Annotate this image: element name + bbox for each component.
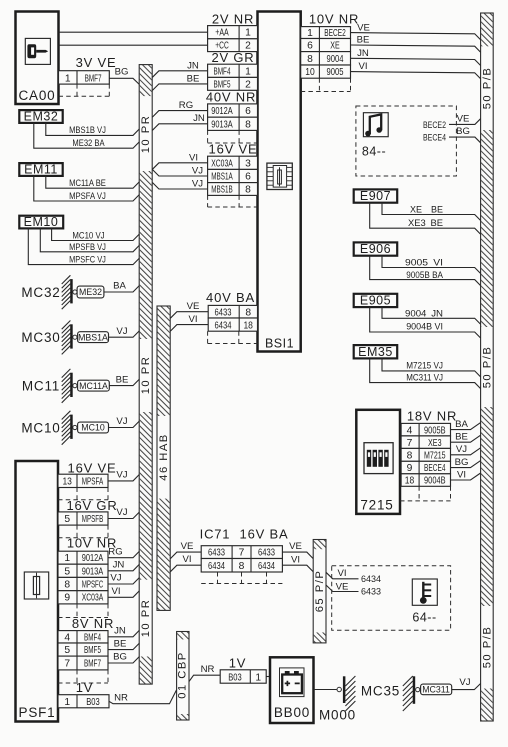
ground MC10 xyxy=(21,411,108,445)
interconnect bar 46 HAB xyxy=(157,306,170,610)
svg-text:9: 9 xyxy=(64,593,70,604)
svg-text:VI: VI xyxy=(337,568,346,579)
svg-text:VJ: VJ xyxy=(116,416,127,427)
svg-text:6: 6 xyxy=(245,106,251,117)
connector 40V BA (BSI1 pins 8,18) xyxy=(206,290,257,344)
svg-text:VI: VI xyxy=(182,554,191,565)
svg-text:5: 5 xyxy=(64,645,70,656)
svg-text:BMF4: BMF4 xyxy=(214,66,231,77)
relay box E907 xyxy=(354,189,398,203)
svg-text:46 HAB: 46 HAB xyxy=(158,433,170,481)
svg-text:XE3: XE3 xyxy=(428,438,442,449)
svg-text:IC71: IC71 xyxy=(200,526,231,541)
interconnect bar 65 P/P xyxy=(313,540,326,643)
svg-text:VJ: VJ xyxy=(116,507,127,518)
connector 2V NR (BSI1 pins 1,2) xyxy=(208,11,258,51)
svg-text:BECE2: BECE2 xyxy=(423,120,446,131)
switch unit 7215 xyxy=(356,410,400,514)
svg-text:MBS1A: MBS1A xyxy=(211,172,233,183)
relay box EM11 xyxy=(19,162,62,176)
svg-text:64--: 64-- xyxy=(412,611,436,625)
svg-text:VE: VE xyxy=(336,581,349,592)
wire BB00 to M000 xyxy=(314,689,337,691)
svg-text:M7215 VJ: M7215 VJ xyxy=(406,361,443,372)
svg-text:BE: BE xyxy=(114,638,127,649)
svg-text:MPSFA: MPSFA xyxy=(82,476,104,487)
svg-text:9012A: 9012A xyxy=(82,553,104,564)
svg-text:6434: 6434 xyxy=(215,320,232,331)
ground MC30 xyxy=(21,321,108,355)
svg-text:1: 1 xyxy=(307,28,313,39)
svg-text:VJ: VJ xyxy=(110,573,121,584)
svg-text:XE BE: XE BE xyxy=(410,204,443,215)
svg-text:13: 13 xyxy=(62,476,72,487)
svg-text:VI: VI xyxy=(111,586,120,597)
svg-text:BE: BE xyxy=(187,73,200,84)
svg-text:1V: 1V xyxy=(76,680,94,695)
svg-text:9013A: 9013A xyxy=(211,119,233,130)
wire +CC xyxy=(59,44,208,46)
svg-text:VJ: VJ xyxy=(459,677,470,688)
svg-text:9004 JN: 9004 JN xyxy=(405,308,443,319)
svg-text:MC10: MC10 xyxy=(21,421,60,436)
connector 16V GR (PSF1 pin 5) xyxy=(58,498,118,538)
svg-text:VI: VI xyxy=(189,152,198,163)
svg-text:E907: E907 xyxy=(360,189,391,203)
ground MC35 xyxy=(361,676,452,711)
svg-text:6: 6 xyxy=(245,172,251,183)
svg-text:VE: VE xyxy=(357,22,370,33)
ignition switch CA00 xyxy=(16,12,59,105)
connector 1V (PSF1 pin 1) xyxy=(58,680,109,708)
svg-text:6434: 6434 xyxy=(208,561,225,572)
svg-text:E906: E906 xyxy=(360,242,391,256)
svg-text:16V VE: 16V VE xyxy=(68,460,117,475)
svg-text:JN: JN xyxy=(193,113,205,124)
audio amplifier 84-- (dashed) xyxy=(356,106,457,176)
svg-text:MPSFC VJ: MPSFC VJ xyxy=(69,255,106,266)
svg-text:4: 4 xyxy=(407,425,413,436)
svg-text:VI: VI xyxy=(358,61,367,72)
svg-text:BECE2: BECE2 xyxy=(324,28,346,39)
svg-text:4: 4 xyxy=(64,632,70,643)
svg-text:BG: BG xyxy=(455,457,469,468)
connector 2V GR (BSI1 pins 1,2) xyxy=(208,50,258,90)
relay box EM35 xyxy=(354,345,398,359)
svg-text:MBS1B: MBS1B xyxy=(211,184,233,195)
svg-text:5: 5 xyxy=(64,514,70,525)
svg-text:MBS1B VJ: MBS1B VJ xyxy=(69,125,106,136)
svg-text:RG: RG xyxy=(108,546,122,557)
svg-text:1V: 1V xyxy=(229,655,247,670)
svg-text:MC35: MC35 xyxy=(361,683,400,698)
svg-text:9004: 9004 xyxy=(327,54,344,65)
svg-text:ME32: ME32 xyxy=(79,287,102,297)
svg-text:3: 3 xyxy=(245,158,251,169)
svg-text:MC10 VJ: MC10 VJ xyxy=(72,230,104,241)
svg-text:XE3 BE: XE3 BE xyxy=(408,218,443,229)
svg-text:BMF7: BMF7 xyxy=(84,659,101,670)
svg-text:BE: BE xyxy=(116,374,129,385)
svg-text:9004B: 9004B xyxy=(424,476,446,487)
interconnect bar 10 PR (left) xyxy=(139,65,152,685)
svg-text:MPSFB: MPSFB xyxy=(82,514,104,525)
svg-text:XC03A: XC03A xyxy=(82,593,104,604)
svg-text:MC11A BE: MC11A BE xyxy=(69,178,106,189)
svg-text:8: 8 xyxy=(245,119,251,130)
svg-text:1: 1 xyxy=(245,66,251,77)
svg-text:MC30: MC30 xyxy=(21,330,60,345)
svg-text:MC11: MC11 xyxy=(22,379,60,394)
svg-text:EM32: EM32 xyxy=(24,109,59,123)
svg-text:9004B VI: 9004B VI xyxy=(406,322,443,333)
svg-text:50 P/B: 50 P/B xyxy=(482,626,494,669)
svg-text:RG: RG xyxy=(179,100,193,111)
svg-text:JN: JN xyxy=(113,560,125,571)
svg-text:MC11A: MC11A xyxy=(79,381,108,391)
svg-text:6433: 6433 xyxy=(258,548,275,559)
svg-text:01 CBP: 01 CBP xyxy=(177,651,189,699)
svg-text:ME32 BA: ME32 BA xyxy=(72,138,105,149)
svg-text:16V GR: 16V GR xyxy=(66,498,117,513)
svg-text:B03: B03 xyxy=(86,697,100,708)
svg-text:1: 1 xyxy=(64,697,70,708)
svg-text:JN: JN xyxy=(187,60,199,71)
svg-text:MC311 VJ: MC311 VJ xyxy=(406,372,443,383)
svg-text:VE: VE xyxy=(457,113,470,124)
svg-text:1: 1 xyxy=(64,553,70,564)
connector 18V NR (7215 pins 4,7,8,9,18) xyxy=(400,408,457,501)
svg-text:7: 7 xyxy=(64,659,70,670)
svg-text:EM10: EM10 xyxy=(24,215,59,229)
svg-text:10: 10 xyxy=(305,67,315,78)
svg-text:6433: 6433 xyxy=(215,307,232,318)
svg-text:BG: BG xyxy=(115,67,129,78)
svg-text:8: 8 xyxy=(407,451,413,462)
svg-text:8: 8 xyxy=(245,307,251,318)
svg-text:18: 18 xyxy=(405,476,415,487)
svg-text:50 P/B: 50 P/B xyxy=(482,67,494,110)
svg-text:VJ: VJ xyxy=(456,444,467,455)
svg-text:VE: VE xyxy=(187,301,200,312)
svg-text:PSF1: PSF1 xyxy=(19,705,56,720)
interconnect bar 50 P/B (right) xyxy=(481,13,494,721)
wire +AA xyxy=(59,31,208,33)
svg-text:6433: 6433 xyxy=(361,587,381,598)
svg-text:VJ: VJ xyxy=(192,179,203,190)
svg-text:BMF4: BMF4 xyxy=(84,632,101,643)
svg-text:6433: 6433 xyxy=(208,548,225,559)
svg-text:8: 8 xyxy=(64,580,70,591)
svg-text:18V NR: 18V NR xyxy=(407,408,457,423)
svg-text:JN: JN xyxy=(357,48,369,59)
svg-text:BA: BA xyxy=(113,281,126,292)
ground M000 xyxy=(319,676,356,723)
svg-text:7: 7 xyxy=(407,438,413,449)
BSI unit BSI1 xyxy=(258,12,301,352)
svg-text:MC311: MC311 xyxy=(422,685,450,695)
svg-text:M7215: M7215 xyxy=(424,451,446,462)
interconnect bar 01 CBP xyxy=(177,632,190,721)
svg-text:VE: VE xyxy=(181,541,194,552)
svg-text:VJ: VJ xyxy=(116,470,127,481)
svg-text:6: 6 xyxy=(307,41,313,52)
svg-text:7215: 7215 xyxy=(360,498,393,513)
cigar lighter 64-- (dashed) xyxy=(332,566,451,631)
svg-text:6434: 6434 xyxy=(258,561,275,572)
svg-text:B03: B03 xyxy=(228,672,242,683)
svg-text:MBS1A: MBS1A xyxy=(78,332,108,342)
svg-text:VI: VI xyxy=(457,469,466,480)
svg-text:BB00: BB00 xyxy=(274,705,310,720)
svg-text:MPSFB VJ: MPSFB VJ xyxy=(69,242,106,253)
relay box EM32 xyxy=(19,109,62,123)
svg-text:8: 8 xyxy=(245,184,251,195)
connector 1V (battery B03) xyxy=(220,655,270,683)
svg-text:E905: E905 xyxy=(360,294,391,308)
svg-text:8: 8 xyxy=(307,54,313,65)
fuse box PSF1 xyxy=(16,461,59,722)
relay box E906 xyxy=(354,242,398,256)
connector IC71 16V BA xyxy=(200,526,289,583)
svg-text:2V NR: 2V NR xyxy=(212,11,254,26)
svg-text:65 P/P: 65 P/P xyxy=(314,570,326,613)
svg-text:BMF7: BMF7 xyxy=(85,73,102,84)
ground MC11 xyxy=(22,369,109,403)
svg-text:9005B: 9005B xyxy=(424,425,446,436)
svg-text:CA00: CA00 xyxy=(19,88,56,103)
connector 3V VE (CA00/BMF7) xyxy=(59,55,117,96)
svg-text:18: 18 xyxy=(243,320,253,331)
svg-text:9: 9 xyxy=(407,463,413,474)
connector 16V VE (PSF1 pin 13) xyxy=(58,460,116,499)
svg-text:8: 8 xyxy=(239,561,245,572)
svg-text:BE: BE xyxy=(357,35,370,46)
svg-text:1: 1 xyxy=(245,28,251,39)
svg-text:BECE4: BECE4 xyxy=(423,133,446,144)
svg-text:BSI1: BSI1 xyxy=(265,337,294,351)
svg-text:+AA: +AA xyxy=(215,28,229,39)
svg-text:BG: BG xyxy=(113,652,127,663)
svg-text:BECE4: BECE4 xyxy=(424,463,446,474)
connector 8V NR (PSF1 pins 4,5,7) xyxy=(58,616,114,683)
svg-text:EM11: EM11 xyxy=(24,162,58,176)
svg-text:EM35: EM35 xyxy=(358,345,393,359)
svg-text:16V BA: 16V BA xyxy=(240,526,289,541)
svg-text:50 P/B: 50 P/B xyxy=(482,346,494,389)
svg-text:2V GR: 2V GR xyxy=(211,50,254,65)
svg-text:VJ: VJ xyxy=(116,326,127,337)
svg-text:3V VE: 3V VE xyxy=(76,55,117,70)
connector 10V NR (PSF1 pins 1,5,8,9) xyxy=(58,536,117,618)
relay box E905 xyxy=(354,294,398,308)
svg-text:40V NR: 40V NR xyxy=(206,89,256,104)
svg-text:VI: VI xyxy=(188,314,197,325)
svg-text:6434: 6434 xyxy=(361,574,381,585)
relay box EM10 xyxy=(19,215,63,229)
svg-text:BE: BE xyxy=(455,432,468,443)
svg-text:VJ: VJ xyxy=(192,166,203,177)
svg-text:BA: BA xyxy=(455,419,468,430)
svg-text:1: 1 xyxy=(65,73,71,84)
svg-text:9005: 9005 xyxy=(327,67,344,78)
svg-text:10 PR: 10 PR xyxy=(140,356,152,395)
wire 6433 VE (to 64--) xyxy=(326,585,359,592)
svg-text:16V VE: 16V VE xyxy=(209,141,258,156)
BSI1 icon xyxy=(267,163,292,189)
connector 10V NR (BSI1 right, pins 1,6,8,10) xyxy=(301,11,359,91)
svg-text:9012A: 9012A xyxy=(211,106,233,117)
connector 40V NR (BSI1 pins 6,8) xyxy=(206,89,258,143)
svg-text:MPSFC: MPSFC xyxy=(82,580,104,591)
ground MC32 xyxy=(21,275,104,309)
svg-text:40V BA: 40V BA xyxy=(206,290,255,305)
svg-text:84--: 84-- xyxy=(362,145,386,159)
svg-text:1: 1 xyxy=(255,672,261,683)
svg-text:VE: VE xyxy=(289,541,302,552)
svg-text:10V NR: 10V NR xyxy=(309,11,359,26)
svg-text:BG: BG xyxy=(456,126,470,137)
svg-text:NR: NR xyxy=(114,693,128,704)
svg-text:XE: XE xyxy=(330,41,340,52)
svg-text:NR: NR xyxy=(201,664,215,675)
svg-text:M000: M000 xyxy=(319,708,356,723)
svg-text:7: 7 xyxy=(239,548,245,559)
svg-text:9013A: 9013A xyxy=(82,566,104,577)
svg-text:MC32: MC32 xyxy=(21,285,60,300)
svg-text:VI: VI xyxy=(291,555,300,566)
svg-text:9005 VI: 9005 VI xyxy=(405,257,443,268)
svg-text:8V NR: 8V NR xyxy=(72,616,114,631)
svg-text:10 PR: 10 PR xyxy=(140,599,152,638)
svg-text:MC10: MC10 xyxy=(81,423,105,433)
connector 16V VE (BSI1 pins 3,6,8) xyxy=(208,141,258,207)
wire 6434 VI (to 64--) xyxy=(326,572,359,579)
svg-text:XC03A: XC03A xyxy=(211,158,233,169)
svg-text:JN: JN xyxy=(114,626,126,637)
svg-text:5: 5 xyxy=(64,566,70,577)
svg-text:BMF5: BMF5 xyxy=(84,645,101,656)
svg-text:10 PR: 10 PR xyxy=(140,115,152,154)
battery BB00 xyxy=(270,657,314,723)
